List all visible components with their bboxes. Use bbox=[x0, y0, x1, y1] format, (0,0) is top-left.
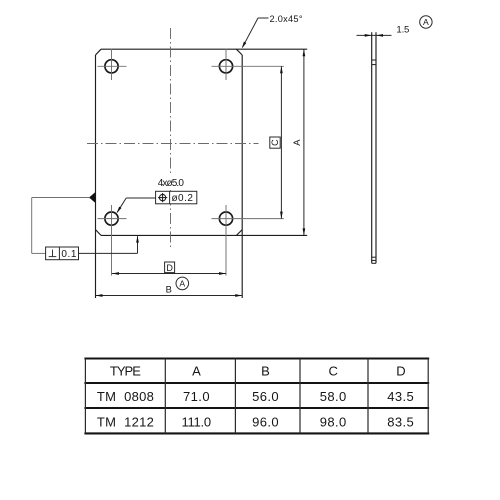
perpendicularity feature control frame bbox=[46, 247, 79, 260]
svg-text:A: A bbox=[423, 17, 429, 27]
front view plate outline bbox=[96, 49, 308, 298]
side view plate faces bbox=[372, 32, 376, 263]
crosshair H1 bbox=[98, 49, 127, 81]
side view hole edge ticks and bottom cap bbox=[372, 60, 376, 263]
svg-text:2.0x45°: 2.0x45° bbox=[270, 14, 303, 24]
svg-text:A: A bbox=[179, 279, 185, 289]
thickness dimension line 1.5 bbox=[357, 34, 392, 36]
svg-text:C: C bbox=[270, 139, 280, 146]
hole H4 bottom-right bbox=[219, 212, 232, 225]
svg-text:96.0: 96.0 bbox=[252, 414, 279, 429]
table header row bbox=[110, 364, 406, 379]
svg-text:D: D bbox=[396, 364, 405, 379]
chamfer leader bbox=[243, 18, 269, 47]
table row TM 0808 bbox=[97, 389, 414, 404]
svg-text:111.0: 111.0 bbox=[182, 414, 212, 429]
datum leader to perpendicularity frame bbox=[32, 198, 89, 254]
svg-text:B: B bbox=[261, 364, 270, 379]
datum reference circled A near B bbox=[176, 277, 189, 290]
svg-text:4xø5.0: 4xø5.0 bbox=[158, 178, 185, 189]
svg-text:98.0: 98.0 bbox=[320, 414, 347, 429]
dimension table grid bbox=[84, 359, 429, 434]
svg-text:71.0: 71.0 bbox=[183, 389, 210, 404]
vertical centerline bbox=[170, 28, 172, 248]
svg-text:D: D bbox=[166, 263, 173, 273]
svg-text:43.5: 43.5 bbox=[387, 389, 414, 404]
chamfer edges bbox=[96, 49, 243, 235]
svg-text:56.0: 56.0 bbox=[252, 389, 279, 404]
svg-text:1.5: 1.5 bbox=[396, 24, 409, 35]
dimension B horizontal line bbox=[96, 295, 243, 297]
dimension D horizontal line bbox=[112, 273, 226, 275]
svg-text:B: B bbox=[166, 283, 172, 294]
label D in box bbox=[165, 262, 175, 273]
hole count label 4x05.0 bbox=[155, 176, 186, 188]
datum circled A side view bbox=[420, 16, 432, 28]
position feature control frame bbox=[156, 191, 197, 204]
hole H3 bottom-left bbox=[105, 212, 118, 225]
dimension C vertical line bbox=[280, 66, 282, 218]
svg-text:A: A bbox=[192, 364, 201, 379]
crosshair H3 + extension to D dim bbox=[98, 205, 127, 276]
svg-text:TM 0808: TM 0808 bbox=[97, 389, 154, 404]
perpendicularity symbol bbox=[49, 250, 57, 257]
table row TM 1212 bbox=[97, 414, 414, 429]
dimension A vertical line bbox=[303, 49, 305, 235]
crosshair H4 + extensions to C and D dims bbox=[212, 205, 284, 276]
hole H1 top-left bbox=[105, 60, 118, 73]
horizontal centerline bbox=[87, 143, 259, 145]
leader from position frame to hole H3 bbox=[117, 198, 155, 212]
svg-text:83.5: 83.5 bbox=[387, 414, 414, 429]
leader from frame to plate bottom edge with arrow bbox=[79, 236, 138, 253]
datum A feature triangle on left edge bbox=[89, 192, 96, 203]
svg-text:TM 1212: TM 1212 bbox=[97, 414, 154, 429]
svg-text:0.1: 0.1 bbox=[61, 249, 76, 260]
hole H2 top-right bbox=[219, 60, 232, 73]
svg-text:ø0.2: ø0.2 bbox=[171, 193, 193, 204]
position symbol bbox=[158, 193, 167, 202]
svg-text:C: C bbox=[329, 364, 338, 379]
svg-text:58.0: 58.0 bbox=[320, 389, 347, 404]
crosshair H2 + extension to C dim bbox=[212, 49, 284, 81]
svg-text:A: A bbox=[291, 139, 302, 146]
svg-text:TYPE: TYPE bbox=[110, 364, 141, 379]
label C in box bbox=[270, 137, 280, 148]
